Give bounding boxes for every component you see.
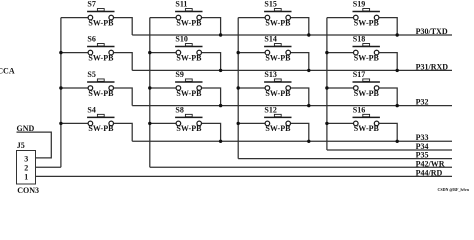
wire S5 left pin to column bus <box>61 87 91 89</box>
wire S10 left pin to column bus <box>150 52 179 54</box>
wire S15 left pin to column bus <box>238 17 267 19</box>
wire S5 right pin hook to row net <box>111 88 132 106</box>
svg-text:SW-PB: SW-PB <box>88 124 114 133</box>
svg-text:S8: S8 <box>175 105 183 114</box>
svg-text:S15: S15 <box>264 0 276 9</box>
pushbutton switch S13 <box>264 79 291 90</box>
pushbutton switch S10 <box>175 44 202 55</box>
wire column 1 vertical bus <box>60 18 62 168</box>
svg-text:SW-PB: SW-PB <box>176 89 202 98</box>
pushbutton switch S15 <box>264 9 291 20</box>
junction column 4 bus row 2 <box>325 51 328 54</box>
svg-text:P31/RXD: P31/RXD <box>416 62 449 71</box>
pushbutton switch S5 <box>87 79 114 90</box>
svg-text:SW-PB: SW-PB <box>265 124 291 133</box>
wire net P32 row line <box>132 105 452 107</box>
wire S4 right pin hook to row net <box>111 123 132 141</box>
svg-text:S18: S18 <box>353 35 365 44</box>
svg-text:S14: S14 <box>264 35 276 44</box>
wire S7 right pin hook to row net <box>111 18 132 35</box>
wire S7 left pin to column bus <box>61 17 91 19</box>
wire S10 right pin hook to row net <box>199 53 220 71</box>
svg-text:SW-PB: SW-PB <box>265 89 291 98</box>
svg-text:S12: S12 <box>264 105 276 114</box>
svg-text:SW-PB: SW-PB <box>354 124 380 133</box>
svg-text:SW-PB: SW-PB <box>88 53 114 62</box>
junction column 3 bus row 4 <box>237 122 240 125</box>
wire S6 left pin to column bus <box>61 52 91 54</box>
svg-text:SW-PB: SW-PB <box>176 18 202 27</box>
svg-text:S6: S6 <box>87 35 95 44</box>
junction column 1 bus row 2 <box>59 51 62 54</box>
junction column 2 bus row 3 <box>148 86 151 89</box>
pushbutton switch S7 <box>87 9 114 20</box>
wire column 4 vertical bus <box>326 18 328 150</box>
svg-text:S5: S5 <box>87 70 95 79</box>
wire S16 right pin hook to row net <box>377 123 398 141</box>
wire J5 pin2 to column 1 bus <box>36 166 61 168</box>
wire net P42/WR bottom line <box>150 166 452 168</box>
wire S4 left pin to column bus <box>61 122 91 124</box>
junction column 1 bus row 4 <box>59 122 62 125</box>
junction S19 hook on net <box>396 33 399 36</box>
wire net P34 bottom line <box>327 149 452 151</box>
svg-text:CSDN @RF_lvlvn: CSDN @RF_lvlvn <box>438 187 470 192</box>
pushbutton switch S11 <box>175 9 202 20</box>
wire S14 left pin to column bus <box>238 52 267 54</box>
junction S11 hook on net <box>219 33 222 36</box>
wire S18 right pin hook to row net <box>377 53 398 71</box>
junction column 2 bus row 4 <box>148 122 151 125</box>
wire S17 left pin to column bus <box>327 87 356 89</box>
svg-text:J5: J5 <box>17 141 25 150</box>
wire net P30/TXD row line <box>132 34 452 36</box>
wire S12 right pin hook to row net <box>288 123 309 141</box>
junction S18 hook on net <box>396 69 399 72</box>
wire S12 left pin to column bus <box>238 122 267 124</box>
junction S9 hook on net <box>219 104 222 107</box>
wire S19 left pin to column bus <box>327 17 356 19</box>
wire net P31/RXD row line <box>132 69 452 71</box>
svg-text:SW-PB: SW-PB <box>88 89 114 98</box>
pushbutton switch S14 <box>264 44 291 55</box>
pushbutton switch S18 <box>353 44 380 55</box>
svg-text:SW-PB: SW-PB <box>176 53 202 62</box>
svg-text:2: 2 <box>24 163 28 172</box>
junction S12 hook on net <box>307 140 310 143</box>
svg-text:P44/RD: P44/RD <box>416 168 443 177</box>
svg-text:P33: P33 <box>416 133 429 142</box>
wire GND to J5 pin3 <box>17 132 52 158</box>
svg-text:SW-PB: SW-PB <box>176 124 202 133</box>
wire S17 right pin hook to row net <box>377 88 398 106</box>
pushbutton switch S16 <box>353 114 380 125</box>
svg-text:S13: S13 <box>264 70 276 79</box>
wire S13 right pin hook to row net <box>288 88 309 106</box>
svg-text:S7: S7 <box>87 0 95 9</box>
svg-text:3: 3 <box>24 154 28 163</box>
svg-text:P32: P32 <box>416 98 429 107</box>
svg-text:SW-PB: SW-PB <box>354 18 380 27</box>
wire net P44/RD from J5 pin1 <box>36 175 453 177</box>
svg-text:S16: S16 <box>353 105 365 114</box>
pushbutton switch S17 <box>353 79 380 90</box>
wire S19 right pin hook to row net <box>377 18 398 35</box>
wire S11 left pin to column bus <box>150 17 179 19</box>
svg-text:VCCA: VCCA <box>0 66 15 75</box>
junction column 3 bus row 3 <box>237 86 240 89</box>
junction S17 hook on net <box>396 104 399 107</box>
svg-text:S10: S10 <box>175 35 187 44</box>
pushbutton switch S4 <box>87 114 114 125</box>
svg-text:S4: S4 <box>87 105 95 114</box>
svg-text:SW-PB: SW-PB <box>88 18 114 27</box>
junction S8 hook on net <box>219 140 222 143</box>
pushbutton switch S6 <box>87 44 114 55</box>
junction column 1 bus row 3 <box>59 86 62 89</box>
wire S18 left pin to column bus <box>327 52 356 54</box>
junction S15 hook on net <box>307 33 310 36</box>
svg-text:CON3: CON3 <box>17 186 39 195</box>
svg-text:S9: S9 <box>175 70 183 79</box>
pushbutton switch S12 <box>264 114 291 125</box>
wire S9 left pin to column bus <box>150 87 179 89</box>
svg-text:S17: S17 <box>353 70 365 79</box>
connector J5 body <box>17 151 36 185</box>
wire S13 left pin to column bus <box>238 87 267 89</box>
wire net P33 row line <box>132 140 452 142</box>
wire S16 left pin to column bus <box>327 122 356 124</box>
svg-text:P35: P35 <box>416 151 429 160</box>
pushbutton switch S9 <box>175 79 202 90</box>
junction column 3 bus row 2 <box>237 51 240 54</box>
wire net P35 bottom line <box>238 158 452 160</box>
svg-text:P42/WR: P42/WR <box>416 159 445 168</box>
svg-text:S11: S11 <box>175 0 187 9</box>
wire S14 right pin hook to row net <box>288 53 309 71</box>
wire S8 right pin hook to row net <box>199 123 220 141</box>
wire S15 right pin hook to row net <box>288 18 309 35</box>
svg-text:SW-PB: SW-PB <box>354 89 380 98</box>
wire S9 right pin hook to row net <box>199 88 220 106</box>
wire column 2 vertical bus <box>149 18 151 168</box>
junction S10 hook on net <box>219 69 222 72</box>
svg-text:S19: S19 <box>353 0 365 9</box>
junction S13 hook on net <box>307 104 310 107</box>
junction column 2 bus row 2 <box>148 51 151 54</box>
pushbutton switch S8 <box>175 114 202 125</box>
pushbutton switch S19 <box>353 9 380 20</box>
wire S11 right pin hook to row net <box>199 18 220 35</box>
wire column 3 vertical bus <box>237 18 239 159</box>
svg-text:SW-PB: SW-PB <box>265 53 291 62</box>
junction S16 hook on net <box>396 140 399 143</box>
junction column 4 bus row 4 <box>325 122 328 125</box>
svg-text:SW-PB: SW-PB <box>354 53 380 62</box>
svg-text:P30/TXD: P30/TXD <box>416 27 448 36</box>
wire S6 right pin hook to row net <box>111 53 132 71</box>
svg-text:SW-PB: SW-PB <box>265 18 291 27</box>
wire S8 left pin to column bus <box>150 122 179 124</box>
junction column 4 bus row 3 <box>325 86 328 89</box>
svg-text:1: 1 <box>24 172 28 181</box>
junction S14 hook on net <box>307 69 310 72</box>
